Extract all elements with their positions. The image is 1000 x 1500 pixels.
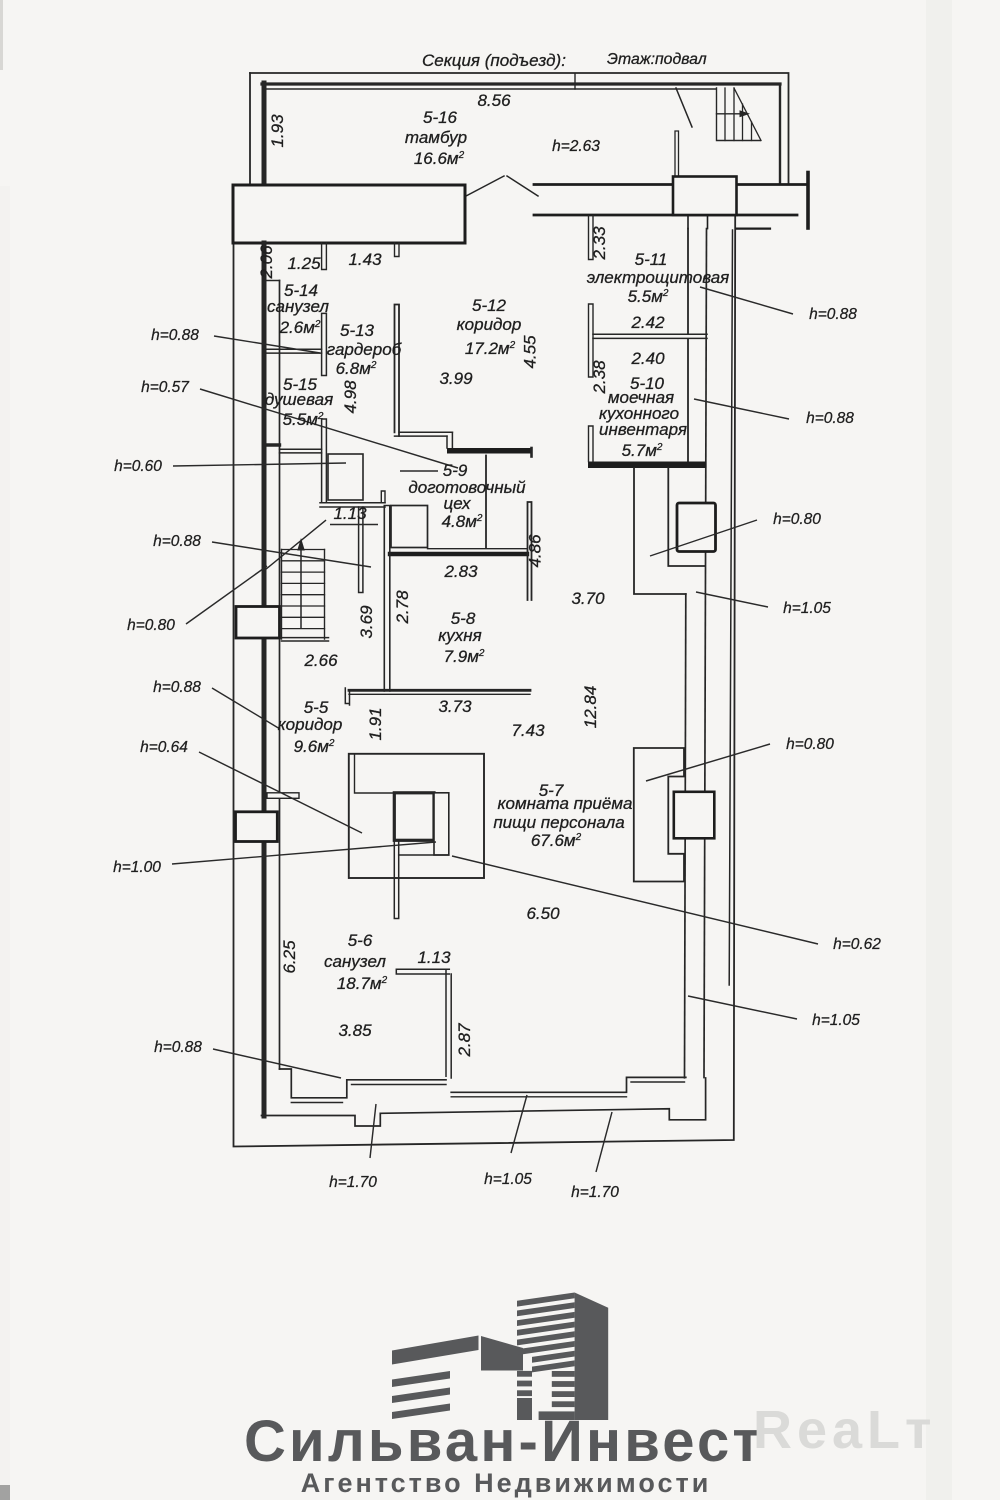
svg-text:санузел: санузел <box>324 952 386 971</box>
svg-text:ReaLт: ReaLт <box>753 1400 937 1460</box>
svg-text:кухня: кухня <box>438 626 481 645</box>
svg-text:4.55: 4.55 <box>521 335 540 369</box>
svg-text:5-6: 5-6 <box>348 931 373 950</box>
svg-text:67.6м2: 67.6м2 <box>531 831 582 850</box>
svg-text:электрощитовая: электрощитовая <box>587 268 730 287</box>
svg-text:h=2.63: h=2.63 <box>552 138 600 155</box>
svg-text:h=0.80: h=0.80 <box>786 736 834 753</box>
svg-text:h=0.88: h=0.88 <box>806 410 854 427</box>
svg-text:1.91: 1.91 <box>366 707 385 740</box>
svg-text:1.43: 1.43 <box>348 250 382 269</box>
svg-text:2.38: 2.38 <box>590 360 609 395</box>
svg-text:гардероб: гардероб <box>327 340 403 359</box>
svg-text:душевая: душевая <box>265 390 333 409</box>
svg-text:пищи персонала: пищи персонала <box>493 813 624 832</box>
svg-text:коридор: коридор <box>457 315 522 334</box>
svg-text:h=0.64: h=0.64 <box>140 739 188 756</box>
svg-text:h=0.80: h=0.80 <box>773 511 821 528</box>
svg-text:тамбур: тамбур <box>405 128 467 147</box>
svg-text:5-12: 5-12 <box>472 296 507 315</box>
svg-text:3.73: 3.73 <box>438 697 472 716</box>
svg-text:18.7м2: 18.7м2 <box>337 974 388 993</box>
svg-text:h=0.80: h=0.80 <box>127 617 175 634</box>
svg-text:Секция (подъезд):: Секция (подъезд): <box>422 51 566 70</box>
svg-text:5.5м2: 5.5м2 <box>283 410 324 429</box>
svg-text:h=1.05: h=1.05 <box>783 600 831 617</box>
svg-text:12.84: 12.84 <box>581 686 600 729</box>
svg-text:16.6м2: 16.6м2 <box>414 149 465 168</box>
svg-text:9.6м2: 9.6м2 <box>294 737 335 756</box>
svg-text:2.83: 2.83 <box>443 562 478 581</box>
svg-text:комната приёма: комната приёма <box>498 794 633 813</box>
svg-text:3.85: 3.85 <box>338 1021 372 1040</box>
svg-text:h=0.88: h=0.88 <box>809 306 857 323</box>
svg-text:3.99: 3.99 <box>439 369 473 388</box>
svg-text:8.56: 8.56 <box>477 91 511 110</box>
svg-text:2.40: 2.40 <box>630 349 665 368</box>
svg-text:цех: цех <box>444 494 471 513</box>
svg-text:17.2м2: 17.2м2 <box>465 339 516 358</box>
svg-text:5.7м2: 5.7м2 <box>622 441 663 460</box>
svg-text:1.13: 1.13 <box>333 504 367 523</box>
svg-text:5-13: 5-13 <box>340 321 375 340</box>
svg-text:h=0.88: h=0.88 <box>153 533 201 550</box>
svg-text:3.70: 3.70 <box>571 589 605 608</box>
svg-text:2.87: 2.87 <box>455 1023 474 1058</box>
svg-text:2.33: 2.33 <box>590 226 609 261</box>
svg-text:h=0.88: h=0.88 <box>153 679 201 696</box>
svg-text:5.5м2: 5.5м2 <box>628 287 669 306</box>
svg-text:5-16: 5-16 <box>423 108 458 127</box>
svg-text:3.69: 3.69 <box>357 605 376 639</box>
svg-text:h=0.60: h=0.60 <box>114 458 162 475</box>
svg-text:1.13: 1.13 <box>417 948 451 967</box>
svg-text:Этаж:подвал: Этаж:подвал <box>607 51 707 68</box>
svg-text:Сильван-Инвест: Сильван-Инвест <box>244 1409 764 1474</box>
svg-text:h=1.00: h=1.00 <box>113 859 161 876</box>
svg-text:7.43: 7.43 <box>511 721 545 740</box>
svg-text:2.66: 2.66 <box>303 651 338 670</box>
svg-text:2.42: 2.42 <box>630 313 665 332</box>
svg-text:h=0.57: h=0.57 <box>141 379 190 396</box>
svg-text:6.50: 6.50 <box>526 904 560 923</box>
svg-text:h=0.88: h=0.88 <box>154 1039 202 1056</box>
svg-text:h=1.05: h=1.05 <box>812 1012 860 1029</box>
svg-text:2.6м2: 2.6м2 <box>279 318 321 337</box>
svg-text:6.8м2: 6.8м2 <box>336 359 377 378</box>
svg-text:санузел: санузел <box>267 297 329 316</box>
svg-text:4.98: 4.98 <box>341 380 360 414</box>
svg-text:6.25: 6.25 <box>280 940 299 974</box>
svg-text:h=0.62: h=0.62 <box>833 936 881 953</box>
svg-text:h=0.88: h=0.88 <box>151 327 199 344</box>
svg-text:2.78: 2.78 <box>393 590 412 625</box>
svg-text:инвентаря: инвентаря <box>599 420 687 439</box>
svg-text:Агентство Недвижимости: Агентство Недвижимости <box>301 1468 712 1498</box>
svg-text:h=1.70: h=1.70 <box>571 1184 619 1201</box>
svg-text:1.25: 1.25 <box>287 254 321 273</box>
svg-text:2.06: 2.06 <box>257 245 276 280</box>
svg-text:4.86: 4.86 <box>526 534 545 568</box>
svg-text:1.93: 1.93 <box>268 114 287 148</box>
svg-text:коридор: коридор <box>278 715 343 734</box>
svg-text:4.8м2: 4.8м2 <box>442 512 483 531</box>
svg-text:5-11: 5-11 <box>635 250 668 269</box>
svg-text:h=1.70: h=1.70 <box>329 1174 377 1191</box>
svg-text:7.9м2: 7.9м2 <box>444 647 485 666</box>
svg-text:h=1.05: h=1.05 <box>484 1171 532 1188</box>
